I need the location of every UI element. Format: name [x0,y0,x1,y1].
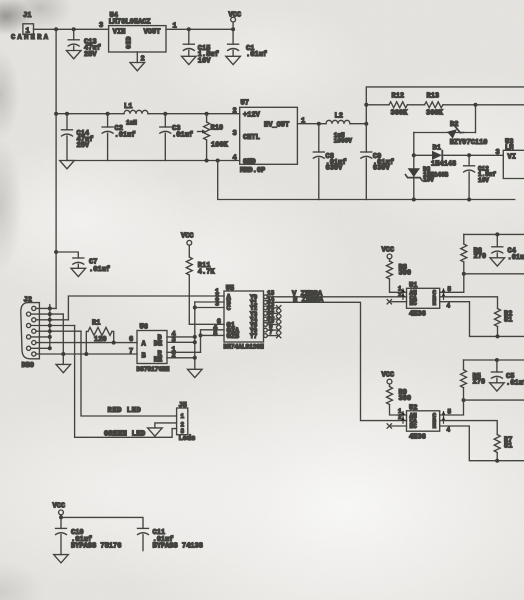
capacitor C11 .01uf BYPASS 74138 [138,528,203,550]
wire U4 VOUT to VCC node [166,22,233,30]
capacitor C3 .01uf [160,114,193,161]
junction D3 bottom rail [412,198,416,202]
junction R5 bottom rail [462,398,466,402]
junction C4 top [495,232,499,236]
resistor R5 270 [461,360,486,400]
pin arrow U1 B [442,293,446,299]
junction at D [193,335,197,339]
capacitor C7 .01uf [56,252,110,274]
wire R5 top rail [464,359,524,361]
inductor L2 1uH 1000V [326,112,366,144]
power VCC above R8 [382,247,395,262]
pin arrow U2 AN [401,411,405,417]
zener D2 BZY97C110 [414,105,488,147]
wire R6 bottom rail [464,273,524,275]
junction bus pin6 [48,335,52,339]
wire Y0 V ZEBRA to U1 [267,291,406,299]
junction bus pin8 [48,346,52,350]
regulator U3 LM [496,139,524,179]
junction R7 bottom [495,459,499,463]
wire D2 anode drop to D1 row [413,133,415,200]
optocoupler U1 4N36 [398,282,452,318]
junction at C3 [163,112,167,116]
power VCC above R9 [382,372,395,387]
capacitor C4 .01uf [492,234,524,262]
decoder U5 DM74ALS138N [213,285,264,351]
junction R10 bottom [205,159,209,163]
capacitor C1 .01uf [228,29,267,59]
capacitor C8 .01uf 630V [313,124,346,200]
wire U2 C to R5 rail [440,400,464,415]
optocoupler U2 4N36 [398,405,452,442]
junction C8 [317,122,321,126]
J2 pin 6 [27,335,50,339]
capacitor C10 .01uf BYPASS 75176 [56,517,122,554]
wire R6 top rail [464,233,524,235]
junction at DE [193,340,197,344]
junction bus pin2 [48,312,52,316]
ground below C13 [66,51,81,59]
diode D1 1N4148 [414,144,504,168]
ground at J5 pin2 [148,428,163,436]
ground below U4 [130,63,145,71]
wire U6 DE stub [167,341,195,343]
wire riser to output rails [366,87,524,124]
capacitor C15 1.5uf 16V [183,29,219,65]
junction R6 bottom rail [462,272,466,276]
pin arrow U5 B [216,298,220,304]
connector J1 CAMERA [11,12,50,42]
capacitor C9 .01uf 630V [361,124,394,200]
no connect U1 NC [387,300,406,304]
J2 pin 8 [27,346,50,350]
pin arrow U1 AN [401,289,405,295]
capacitor C5 .01uf [491,360,524,387]
power VCC above R11 [181,233,194,258]
Y3 pin 12 no connect [264,307,281,316]
wire HV input row to U7 [56,113,240,115]
wire U6 R stub [167,351,201,353]
junction bus pin4 [48,324,52,328]
J2 pin 3 [32,318,69,322]
junction C5 top [495,358,499,362]
junction at x=56 input rail [54,27,58,31]
Y2 pin 13 no connect [264,301,281,310]
transceiver U6 DS75176BN [129,323,176,373]
Y0 pin 15 bubble [264,290,275,298]
junction bus pin5 [48,329,52,333]
wire to U5 C [195,307,224,309]
wire bypass rail [61,517,143,528]
junction at C-row [193,306,197,310]
resistor R7 51 [494,435,512,461]
resistor R1 120 termination [86,319,113,354]
J2 pin 9 wire B [32,352,137,356]
wire U1 C to R6 rail [440,274,464,293]
Y1 pin 14 bubble [264,296,275,304]
J2 pin 2 [27,312,64,316]
ground below J2 [56,364,71,372]
wire left input rail vertical [55,29,57,308]
wire to U5 B [195,301,224,303]
zener D3 1N5240B 10V [406,166,449,183]
junction riser at R12 row [364,103,368,107]
junction at RE [193,356,197,360]
junction D1 row [412,153,416,157]
pin arrow U2 C [442,411,446,417]
wire J5 pin2 to ground [155,423,177,428]
J2 pin 4 [27,323,75,327]
junction C12 top [467,153,471,157]
Y5 pin 10 no connect [264,318,281,327]
junction R13 output / D2 [474,103,478,107]
resistor R11 4.7K [186,257,215,324]
resistor R12 360K [366,93,408,118]
power VCC top [229,11,242,29]
Y7 pin 7 no connect [264,329,281,338]
ground below C5 [490,383,505,391]
junction VCC bypass [59,515,63,519]
pin arrow U2 CA [401,417,405,423]
regulator U4 LM78L05ACZ [109,12,166,52]
junction HV return [216,159,220,163]
wire U1 E row [440,302,524,337]
wire J2 pin2 to ground [62,314,64,364]
Y4 pin 11 no connect [264,313,281,322]
resistor R8 390 [387,261,412,292]
wire R11 to U5 G1 [189,323,224,325]
wire GREEN LED from J2 pin4 [75,326,177,439]
wire to U5 G2B [201,334,225,336]
wire U2 B to R7 [440,421,498,435]
wire U2 E row [440,426,524,461]
ground below C4 [490,258,505,266]
junction R1 left at wire B [84,352,88,356]
resistor R9 390 [387,387,412,416]
power VCC bypass [53,503,66,518]
wire HV_OUT to L2 [297,123,326,125]
junction gnd drop at wire B [61,352,65,356]
wire R5 bottom rail [464,399,524,401]
junction C7 branch [54,250,58,254]
junction R2 bottom [496,334,500,338]
junction bus pin3 [48,318,52,322]
capacitor C14 47uf 25V [62,114,94,161]
wire local ground rail of HV stage [67,160,240,162]
no connect U2 NC [387,424,406,428]
converter U7 MRD.6P [233,100,306,175]
connector J2 DB9 shell [21,296,40,369]
junction at C14 [65,112,69,116]
junction at C1 [231,27,235,31]
wire U6 RE stub [167,357,195,359]
resistor R2 51 [495,309,513,337]
resistor R6 270 [461,234,486,273]
ground below C10 [54,555,69,563]
junction C12 bottom rail [467,198,471,202]
J2 pin 5 [32,329,81,333]
wire HV return drop [218,161,515,200]
junction R1 right at wire A [112,341,116,345]
junction at C15 [187,27,191,31]
wire U1 B to R2 [440,297,498,309]
pin arrow U1 CA [401,293,405,299]
junction G2B tap [199,333,203,337]
wire R output to G2 enables [201,330,225,353]
Y6 pin 9 no connect [264,324,281,333]
inductor L1 1uH [124,103,148,126]
wire J2 shield bus [49,305,51,349]
connector J5 Leds [177,402,196,443]
J2 pin 1 [32,306,56,310]
ground below C1 [226,56,241,64]
junction at C2 [106,112,110,116]
potentiometer R10 100K [198,114,229,161]
wire Y1 H ZEBRA to U2 [267,297,406,421]
junction rail at HV row [54,112,58,116]
junction at R10 top [205,112,209,116]
junction C9 / riser [364,122,368,126]
capacitor C2 .01uf [102,114,135,161]
ground below C14 rail [60,161,75,169]
wire U6 D stub [167,336,195,338]
capacitor C12 1.5uf 16V [464,155,497,199]
junction at C13 [72,27,76,31]
pin arrow U2 B [442,417,446,423]
wire U6 feedback vertical to ground [194,302,196,369]
resistor R13 360K [407,93,524,118]
wire RED LED from J2 pin5 [81,331,177,416]
junction bus pin1 [48,306,52,310]
capacitor C13 47uf 25V [68,29,101,59]
wire J1 to U4 VIN [34,22,109,30]
J2 pin 7 wire A [32,341,137,345]
pin arrow U1 C [442,289,446,295]
pin arrow U5 A [216,292,220,298]
wire J2 pin3 riser to U5 A [68,296,224,320]
ground below C15 [182,56,197,64]
wire U4 pin 2 to ground [137,52,144,64]
ground below C7 [71,268,86,276]
ground below U6 logic [188,369,203,377]
